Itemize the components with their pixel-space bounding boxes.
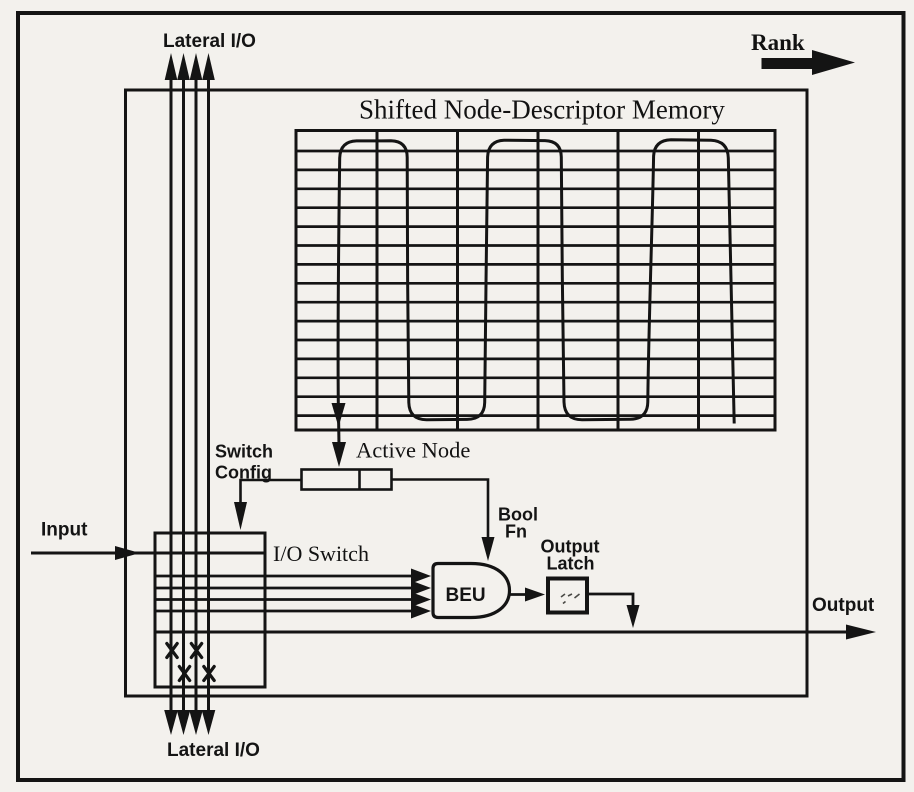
svg-text:Fn: Fn [505, 522, 527, 542]
svg-text:Shifted Node-Descriptor Memory: Shifted Node-Descriptor Memory [359, 95, 725, 125]
svg-text:Lateral I/O: Lateral I/O [163, 31, 256, 52]
svg-text:Latch: Latch [547, 554, 595, 574]
svg-text:Rank: Rank [751, 30, 805, 55]
svg-text:BEU: BEU [446, 585, 486, 606]
svg-text:Lateral I/O: Lateral I/O [167, 740, 260, 761]
svg-text:I/O Switch: I/O Switch [273, 541, 369, 566]
svg-text:Active Node: Active Node [356, 438, 470, 463]
svg-text:Switch: Switch [215, 442, 273, 462]
svg-text:Input: Input [41, 520, 88, 541]
svg-text:Output: Output [812, 595, 875, 616]
svg-text:Config: Config [215, 463, 272, 483]
